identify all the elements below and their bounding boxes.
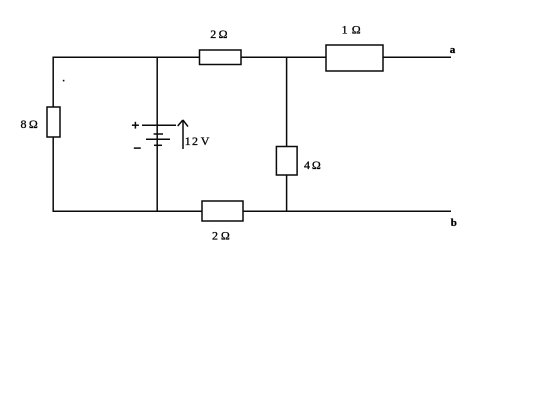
svg-text:Ω: Ω [352, 23, 361, 37]
svg-text:1: 1 [342, 23, 348, 37]
svg-text:Ω: Ω [221, 229, 230, 243]
svg-text:2: 2 [210, 27, 216, 41]
svg-text:Ω: Ω [219, 27, 228, 41]
svg-text:2: 2 [212, 229, 218, 243]
svg-text:Ω: Ω [312, 158, 321, 172]
svg-text:Ω: Ω [29, 117, 38, 131]
svg-text:8: 8 [21, 117, 27, 131]
svg-text:1: 1 [185, 134, 191, 148]
svg-text:a: a [450, 44, 456, 56]
svg-text:b: b [451, 217, 457, 229]
svg-text:2: 2 [192, 134, 198, 148]
svg-text:V: V [201, 134, 210, 148]
svg-text:4: 4 [304, 158, 310, 172]
